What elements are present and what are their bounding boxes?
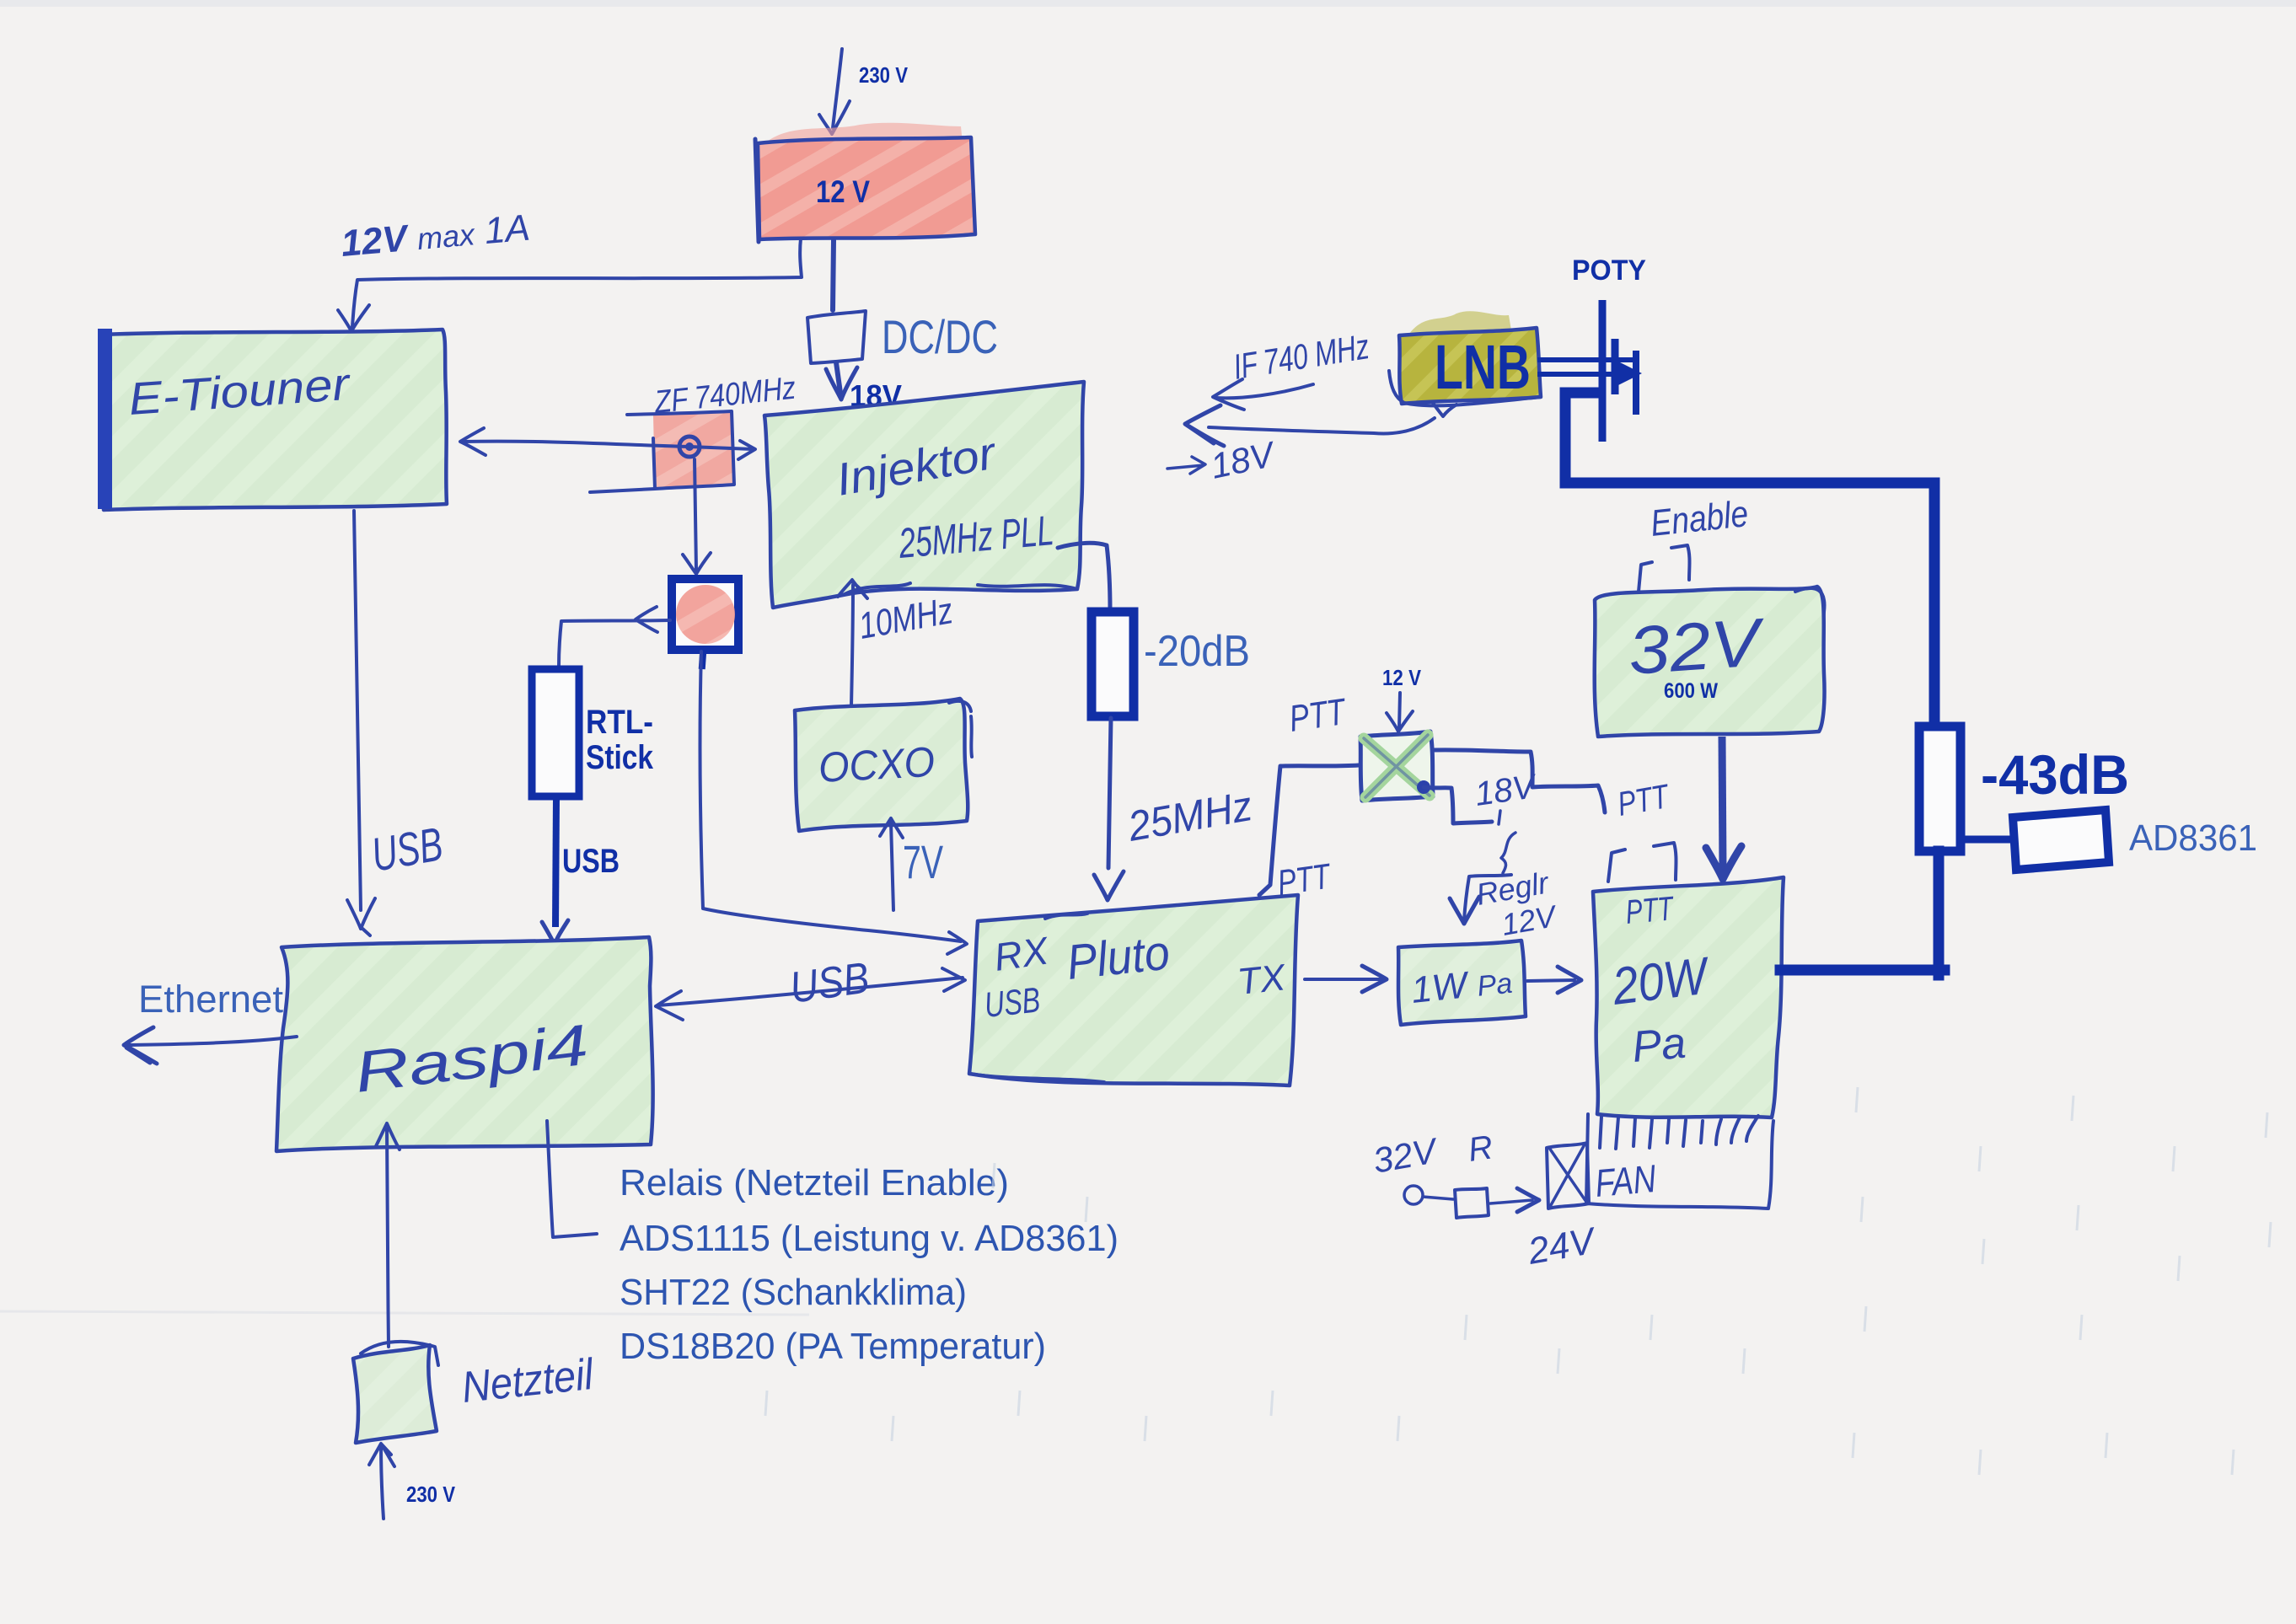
wire 32V to PA (bold pen arrow) (1722, 737, 1723, 871)
svg-text:RTL-: RTL- (586, 704, 653, 741)
wire E-Tiouner USB down to Raspi (354, 511, 361, 910)
power supply 12V box (767, 123, 963, 147)
squiggle brace (1501, 833, 1515, 873)
wire splitter down to Pluto RX (700, 651, 961, 941)
32V 600W PSU box (1595, 587, 1825, 737)
svg-text:230 V: 230 V (406, 1482, 456, 1507)
wire resistor to fan (1490, 1200, 1532, 1203)
AD8361 power detector box (2013, 810, 2109, 870)
svg-text:Ethernet: Ethernet (138, 978, 283, 1021)
Raspi4 box (276, 937, 653, 1151)
svg-text:AD8361: AD8361 (2129, 817, 2257, 859)
splitter red box (bold) (672, 579, 738, 650)
AW PA driver box (1398, 941, 1526, 1025)
FAN enclosure under PA (1586, 1114, 1773, 1209)
thick line attenuator down to PA output junction (1934, 851, 1945, 975)
svg-text:ADS1115 (Leistung v. AD8361): ADS1115 (Leistung v. AD8361) (620, 1218, 1118, 1259)
digital bar on E-Tiouner left edge (98, 329, 112, 509)
arrowhead into E-Tiouner (338, 305, 369, 339)
svg-text:OCXO: OCXO (818, 738, 936, 791)
svg-text:20W: 20W (1608, 946, 1714, 1016)
RTL-Stick dongle (532, 669, 579, 796)
svg-text:SHT22 (Schankklima): SHT22 (Schankklima) (620, 1272, 967, 1313)
arrow under IF label (1213, 379, 1313, 410)
wire relay PTT to Pluto (1259, 765, 1359, 895)
svg-text:Pluto: Pluto (1065, 925, 1172, 990)
E-Tiouner box (102, 330, 447, 510)
PA PTT switch symbol (1608, 843, 1676, 882)
svg-text:600 W: 600 W (1664, 679, 1718, 703)
fan resistor box (1455, 1188, 1489, 1218)
wire 7V into OCXO (891, 823, 893, 910)
wire 230V into Netzteil (381, 1444, 384, 1519)
svg-text:TX: TX (1236, 957, 1289, 1003)
wire OCXO 10MHz to Injektor (851, 585, 853, 706)
svg-text:RX: RX (991, 928, 1053, 979)
enable switch symbol (1639, 545, 1690, 592)
20W PA box (1593, 877, 1784, 1118)
wire 12V to DC/DC (833, 240, 834, 310)
Injektor 25MHz PLL box (764, 382, 1084, 608)
wire LNB IF out to Injektor (1209, 418, 1435, 433)
bracket Raspi to sensor list (547, 1121, 597, 1237)
svg-text:12 V: 12 V (1382, 665, 1422, 690)
svg-text:Pa: Pa (1630, 1019, 1687, 1072)
wire 12V box to E-Tiouner (352, 239, 802, 327)
svg-text:Stick: Stick (586, 739, 654, 776)
fan symbol (1547, 1143, 1589, 1209)
svg-text:Relais (Netzteil Enable): Relais (Netzteil Enable) (620, 1162, 1009, 1203)
thick coax POTY to -43dB attenuator (1565, 393, 1934, 725)
LNB box (1409, 311, 1512, 339)
LNB feed lines to POTY (1537, 360, 1635, 374)
arrow into regulator (1464, 875, 1511, 920)
svg-text:USB: USB (562, 843, 620, 880)
svg-text:DC/DC: DC/DC (882, 310, 998, 363)
svg-text:POTY: POTY (1572, 255, 1646, 287)
wire relay to PA PTT (upper staircase) (1433, 750, 1605, 812)
wire DC/DC to Injektor 18V (836, 362, 840, 393)
thick line PA output to junction (1780, 965, 1945, 976)
wire Netzteil to Raspi (387, 1129, 389, 1347)
PTT relay box with X (1360, 732, 1433, 801)
PA heatsink fins (1600, 1116, 1758, 1149)
junction dot relay output (1417, 780, 1430, 794)
wire Raspi to Pluto USB (bidirectional) (657, 978, 963, 1005)
wire 230V into 12V supply (819, 49, 850, 134)
wire ZF box down to splitter (695, 459, 696, 570)
wire Injektor to -20dB attenuator (1058, 543, 1110, 610)
svg-text:PTT: PTT (1287, 691, 1350, 740)
svg-text:LNB: LNB (1435, 332, 1531, 402)
svg-text:7V: 7V (903, 835, 943, 888)
thick tap attenuator to AD8361 (1959, 836, 2014, 844)
svg-text:FAN: FAN (1593, 1156, 1658, 1205)
wire 12V into relay box (1399, 693, 1400, 728)
svg-text:R: R (1466, 1128, 1495, 1169)
DC/DC converter box (807, 311, 866, 363)
svg-text:PTT: PTT (1624, 890, 1676, 931)
svg-text:230 V: 230 V (859, 62, 909, 88)
svg-text:USB: USB (983, 979, 1043, 1025)
wire Pluto TX to AW PA (1305, 978, 1381, 981)
wire Raspi Ethernet arrow (128, 1037, 297, 1045)
wire attenuator 25MHz down to Pluto (1108, 718, 1111, 868)
node circle on ZF line (679, 437, 700, 457)
wire node to resistor (1423, 1197, 1453, 1199)
label 18V out to LNB (1167, 457, 1205, 474)
wire AW PA to 20W PA (1527, 980, 1574, 981)
attenuator -20dB (1092, 612, 1134, 716)
svg-text:12 V: 12 V (816, 174, 870, 209)
svg-text:-43dB: -43dB (1981, 743, 2129, 806)
wire Injektor to E-Tiouner with ZF tap (653, 411, 734, 489)
svg-text:DS18B20 (PA Temperatur): DS18B20 (PA Temperatur) (620, 1326, 1046, 1367)
wire RTL-Stick USB down to Raspi (555, 796, 556, 927)
-43dB attenuator (1919, 726, 1961, 851)
OCXO box (795, 699, 968, 831)
Pluto box (969, 895, 1298, 1085)
wire relay 18V staircase (1424, 787, 1492, 823)
wire splitter to RTL-Stick (559, 620, 670, 666)
svg-text:-20dB: -20dB (1144, 627, 1250, 676)
Netzteil box (353, 1345, 437, 1443)
svg-text:PTT: PTT (1275, 855, 1335, 903)
svg-text:32V: 32V (1626, 604, 1768, 689)
POTY antenna mast (1599, 300, 1607, 442)
fan feed circle node (1404, 1186, 1423, 1204)
